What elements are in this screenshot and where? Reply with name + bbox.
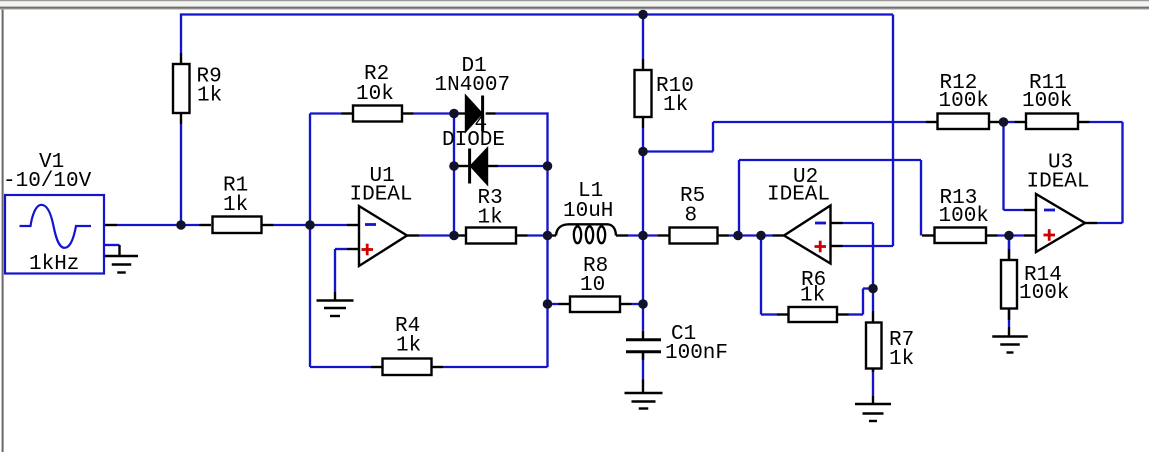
svg-text:100k: 100k (939, 205, 989, 228)
svg-text:1k: 1k (223, 194, 248, 217)
svg-text:100nF: 100nF (665, 342, 728, 365)
svg-text:100k: 100k (1022, 90, 1072, 113)
svg-text:1N4007: 1N4007 (435, 74, 511, 97)
svg-text:IDEAL: IDEAL (767, 184, 830, 207)
svg-text:8: 8 (685, 205, 698, 228)
svg-text:DIODE: DIODE (442, 129, 505, 152)
svg-text:10k: 10k (356, 83, 394, 106)
svg-text:1k: 1k (197, 85, 222, 108)
svg-text:1k: 1k (478, 207, 503, 230)
svg-text:1k: 1k (396, 335, 421, 358)
svg-text:1kHz: 1kHz (29, 253, 79, 276)
svg-text:1k: 1k (800, 285, 825, 308)
svg-text:1k: 1k (889, 348, 914, 371)
svg-text:-10/10V: -10/10V (3, 170, 92, 193)
svg-text:10: 10 (580, 274, 605, 297)
svg-text:IDEAL: IDEAL (350, 184, 413, 207)
svg-text:10uH: 10uH (563, 200, 613, 223)
svg-text:1k: 1k (663, 94, 688, 117)
svg-text:4: 4 (475, 113, 488, 136)
svg-text:IDEAL: IDEAL (1027, 171, 1090, 194)
svg-text:100k: 100k (1019, 282, 1069, 305)
svg-text:100k: 100k (939, 90, 989, 113)
